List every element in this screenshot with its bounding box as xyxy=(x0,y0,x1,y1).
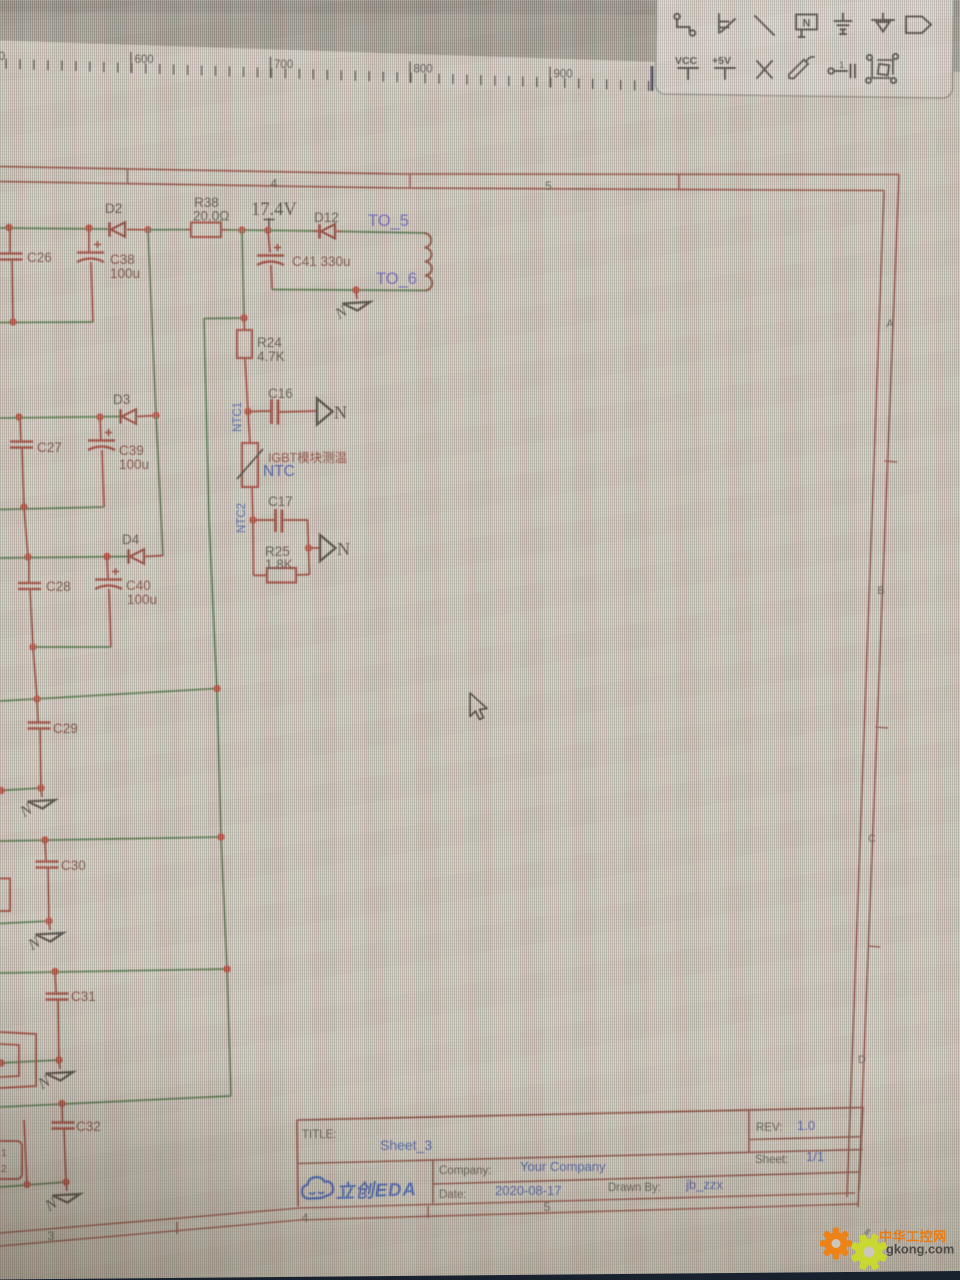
watermark wrench gray xyxy=(859,1228,871,1241)
top border column tick 1 xyxy=(127,169,129,185)
wire R38 to 17.4V node xyxy=(227,229,268,232)
wire C27 junction down to D4 row xyxy=(24,507,28,557)
wire C31 ground row xyxy=(0,1060,59,1063)
node C32 top junction xyxy=(58,1100,65,1107)
svg-text:4.7K: 4.7K xyxy=(257,349,285,364)
cut component boxes at left edge above C32 xyxy=(0,1032,36,1088)
node R24 top junction xyxy=(240,314,247,321)
node C16 row junction xyxy=(244,408,251,415)
node C39 top junction xyxy=(96,413,103,420)
svg-text:17.4V: 17.4V xyxy=(251,200,297,220)
resistor R25 xyxy=(254,568,310,583)
node C29 top junction xyxy=(33,695,40,702)
ruler ticks and numbers xyxy=(6,52,649,91)
svg-text:100u: 100u xyxy=(127,592,157,607)
svg-text:D2: D2 xyxy=(105,201,122,216)
sheet border outer bottom xyxy=(0,1204,858,1246)
wire D12 to inductor top xyxy=(342,231,424,233)
svg-text:600: 600 xyxy=(135,54,154,66)
wire vertical R38 junction down to R24 xyxy=(242,230,244,318)
capacitor C32 xyxy=(52,1104,75,1183)
right border row tick 3 xyxy=(868,946,880,947)
top border column tick 3 xyxy=(678,174,680,190)
wire junction down to R25 right xyxy=(309,548,310,575)
icon wire tool xyxy=(674,14,680,20)
svg-text:Sheet:: Sheet: xyxy=(755,1154,788,1166)
icon probe tool xyxy=(789,57,814,79)
wire stub to flag xyxy=(309,547,321,549)
wire D3 row xyxy=(0,417,120,419)
capacitor C40 xyxy=(95,557,122,648)
svg-text:Drawn By:: Drawn By: xyxy=(608,1182,661,1194)
svg-text:2: 2 xyxy=(1,1163,7,1175)
capacitor C16 xyxy=(272,399,279,425)
svg-text:3: 3 xyxy=(48,1229,55,1243)
capacitor C41 xyxy=(257,230,284,289)
sheet border outer top xyxy=(0,167,899,175)
svg-text:Sheet_3: Sheet_3 xyxy=(380,1137,432,1153)
svg-text:REV:: REV: xyxy=(756,1122,782,1134)
resistor R38 xyxy=(186,223,227,238)
right border row tick 2 xyxy=(875,727,888,728)
inductor TO coil xyxy=(424,233,432,291)
svg-text:TO_5: TO_5 xyxy=(368,212,409,230)
svg-text:100u: 100u xyxy=(110,266,140,281)
svg-text:2020-08-17: 2020-08-17 xyxy=(495,1183,562,1198)
wire row1 top from left edge to D2 xyxy=(0,228,108,229)
svg-text:jb_zzx: jb_zzx xyxy=(685,1177,723,1192)
title block vertical divider rev column xyxy=(748,1110,750,1152)
svg-text:D3: D3 xyxy=(113,392,130,407)
cut component at left edge row C30 xyxy=(0,879,10,912)
node C30 top junction xyxy=(41,836,48,843)
sheet border outer right xyxy=(858,175,899,1208)
svg-text:C27: C27 xyxy=(37,440,62,455)
node C29 row left edge junction xyxy=(0,787,5,794)
svg-text:C17: C17 xyxy=(268,494,293,509)
svg-text:VCC: VCC xyxy=(675,55,698,67)
svg-text:5: 5 xyxy=(545,179,552,193)
icon ground tool xyxy=(835,14,852,35)
title block divider under company row xyxy=(433,1172,861,1184)
top gray toolbar band xyxy=(0,0,960,72)
node C29 row right junction xyxy=(213,685,220,692)
svg-text:C28: C28 xyxy=(46,579,71,594)
wire row1 bottom xyxy=(0,321,93,324)
wire C29 row xyxy=(0,689,217,702)
title block outer box xyxy=(297,1108,863,1207)
sheet border inner bottom xyxy=(0,1193,855,1233)
node C31 bottom junction xyxy=(55,1056,62,1063)
node C29 bottom junction xyxy=(37,784,44,791)
capacitor C28 xyxy=(18,557,41,647)
ground flag N under C41 xyxy=(332,290,370,323)
wire vertical D3 row to D4 corner xyxy=(156,416,163,556)
svg-text:TO_6: TO_6 xyxy=(376,270,417,288)
thermistor NTC xyxy=(237,412,263,521)
svg-text:500: 500 xyxy=(0,51,5,63)
node connector junction xyxy=(23,1181,30,1188)
wire C39 bottom row xyxy=(0,507,104,510)
capacitor C17 xyxy=(276,509,283,533)
wire R25 left up to NTC junction xyxy=(252,520,255,576)
diode D2 xyxy=(110,222,149,236)
right border row tick 1 xyxy=(885,461,898,462)
svg-text:B: B xyxy=(877,585,884,597)
ground flag N under C29 xyxy=(17,788,55,821)
wire C16 left xyxy=(248,410,271,413)
ground flag N right of C16 xyxy=(317,399,347,425)
node ground junction under C41 xyxy=(352,286,359,293)
node D3 output junction xyxy=(152,412,159,419)
logo lceda cloud icon xyxy=(301,1176,333,1199)
wire vertical D2 junction to D3 row xyxy=(148,230,156,416)
svg-text:C32: C32 xyxy=(76,1119,101,1134)
ground flag N under C31 xyxy=(35,1060,73,1093)
svg-text:1/1: 1/1 xyxy=(806,1149,824,1164)
node R38 output junction xyxy=(238,226,245,233)
capacitor C38 xyxy=(77,228,104,322)
wire C29 ground row xyxy=(0,788,41,791)
wire C17 left xyxy=(253,519,275,521)
diode D12 xyxy=(313,224,342,238)
node C32 bottom junction xyxy=(62,1178,69,1185)
node C41 top junction xyxy=(264,227,271,234)
sheet border inner top xyxy=(0,182,884,191)
svg-text:NTC2: NTC2 xyxy=(236,503,248,533)
node R25 right junction xyxy=(305,544,312,551)
svg-text:A: A xyxy=(886,318,894,330)
ruler strip xyxy=(0,41,655,97)
diode D3 xyxy=(121,409,157,423)
connector component at left edge with pins 1 2 xyxy=(0,1141,22,1179)
svg-text:D12: D12 xyxy=(314,210,339,225)
ground flag N under C32 xyxy=(42,1182,80,1215)
wire C31 row xyxy=(0,969,227,973)
svg-text:C39: C39 xyxy=(119,443,144,458)
svg-text:C40: C40 xyxy=(126,578,151,593)
mouse cursor xyxy=(470,693,487,720)
svg-text:4: 4 xyxy=(271,177,278,191)
node stage2 bottom junction xyxy=(20,503,27,510)
ground flag N right of R25 xyxy=(320,535,350,561)
node C30 bottom junction xyxy=(45,917,52,924)
svg-text:Date:: Date: xyxy=(439,1189,467,1201)
wire D4 row xyxy=(0,557,128,559)
svg-text:R24: R24 xyxy=(257,335,282,350)
wire C32 row xyxy=(0,1096,231,1107)
node C28 top junction xyxy=(24,553,31,560)
svg-text:C30: C30 xyxy=(61,858,86,873)
svg-text:N: N xyxy=(334,403,347,423)
svg-text:+5V: +5V xyxy=(712,55,731,67)
icon pin tool xyxy=(828,68,834,74)
svg-text:TITLE:: TITLE: xyxy=(302,1129,337,1141)
node C31 row right junction xyxy=(223,965,230,972)
capacitor C26 xyxy=(0,228,23,322)
svg-text:900: 900 xyxy=(554,68,573,80)
svg-text:1.0: 1.0 xyxy=(797,1118,815,1133)
watermark gear orange xyxy=(820,1228,852,1260)
node C27 top junction xyxy=(15,413,22,420)
svg-text:5: 5 xyxy=(544,1200,551,1214)
node row1 bottom junction xyxy=(9,318,16,325)
svg-text:D: D xyxy=(858,1054,866,1066)
icon net port tool xyxy=(906,17,931,34)
diode D4 xyxy=(129,549,164,563)
capacitor C29 xyxy=(28,699,51,788)
icon signal ground tool xyxy=(872,14,894,32)
svg-text:C26: C26 xyxy=(27,250,52,265)
bottom border tick 2 xyxy=(427,1206,429,1218)
title block vertical divider logo cell xyxy=(432,1160,434,1203)
wire C30 row xyxy=(0,837,221,841)
node C30 row right junction xyxy=(217,833,224,840)
watermark gear green xyxy=(850,1233,887,1270)
floating symbol toolbar panel xyxy=(655,0,953,98)
resistor R24 xyxy=(237,318,252,412)
wire C17 right and down xyxy=(282,520,309,548)
wire D2 junction to R38 xyxy=(148,229,186,231)
node C31 row left edge junction xyxy=(0,1059,5,1066)
svg-text:NTC1: NTC1 xyxy=(232,402,244,432)
svg-text:N: N xyxy=(337,539,350,559)
svg-text:Your Company: Your Company xyxy=(520,1159,606,1174)
svg-text:20.0Ω: 20.0Ω xyxy=(193,209,229,224)
svg-text:C29: C29 xyxy=(53,721,78,736)
svg-text:C31: C31 xyxy=(71,989,96,1004)
wire C28 junction down to C29 row xyxy=(33,647,37,699)
wire 17.4V node to D12 xyxy=(268,229,318,232)
svg-text:800: 800 xyxy=(414,64,433,76)
svg-text:立创EDA: 立创EDA xyxy=(335,1178,417,1202)
sheet border inner right xyxy=(847,191,884,1198)
svg-text:100u: 100u xyxy=(119,457,149,472)
long vertical wire left ladder to C32 row xyxy=(204,319,231,1097)
node C31 top junction xyxy=(51,968,58,975)
wire horizontal to long vertical corner xyxy=(204,317,244,320)
svg-text:4: 4 xyxy=(302,1211,309,1225)
icon group tool xyxy=(872,60,893,78)
svg-text:D4: D4 xyxy=(122,532,140,547)
node C26 top junction xyxy=(5,224,12,231)
bottom border tick 1 xyxy=(176,1222,178,1234)
icon no-connect tool xyxy=(757,61,772,78)
node NTC bottom junction xyxy=(249,516,256,523)
capacitor C30 xyxy=(36,840,59,921)
capacitor C31 xyxy=(46,972,69,1061)
title block divider under title row xyxy=(298,1150,863,1164)
node D2 output junction xyxy=(144,226,151,233)
wire C32 ground row xyxy=(0,1182,66,1187)
wire C30 ground row xyxy=(0,921,49,924)
wire connector pin lead up xyxy=(24,1120,27,1185)
wire C41 bottom to coil bottom xyxy=(272,290,425,291)
svg-text:C16: C16 xyxy=(268,386,293,401)
svg-text:N: N xyxy=(803,18,811,30)
icon net label tool xyxy=(796,15,817,30)
svg-text:C41 330u: C41 330u xyxy=(292,254,351,269)
icon bus entry tool xyxy=(719,14,735,33)
node C40 top junction xyxy=(103,553,110,560)
svg-text:gkong.com: gkong.com xyxy=(886,1242,954,1257)
node C38 top junction xyxy=(85,224,92,231)
wire C16 right to flag xyxy=(278,411,317,412)
node stage3 bottom junction xyxy=(29,643,36,650)
ruler cursor position marker xyxy=(651,66,654,91)
capacitor C27 xyxy=(10,417,33,507)
svg-text:1.8K: 1.8K xyxy=(265,557,293,572)
top border column tick 2 xyxy=(409,174,411,188)
ground flag N under C30 xyxy=(25,921,63,954)
svg-text:700: 700 xyxy=(274,59,293,71)
icon line tool xyxy=(755,16,774,35)
svg-text:C38: C38 xyxy=(110,252,135,267)
svg-text:NTC: NTC xyxy=(263,463,295,480)
net label 17.4V xyxy=(251,200,297,230)
wire C40 bottom row xyxy=(33,646,111,648)
svg-text:1: 1 xyxy=(1,1147,7,1159)
capacitor C39 xyxy=(88,417,115,507)
svg-text:1: 1 xyxy=(839,60,844,71)
svg-text:C: C xyxy=(868,833,876,845)
svg-text:Company:: Company: xyxy=(439,1165,491,1177)
title block divider rev sheet rows xyxy=(749,1137,862,1140)
